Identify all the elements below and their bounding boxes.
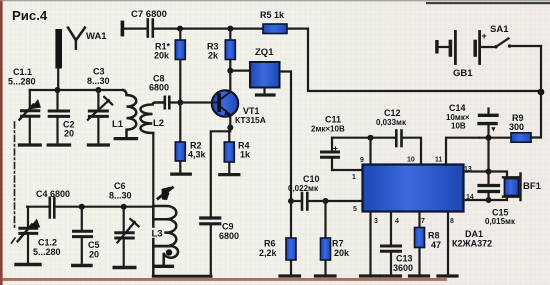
label L2 [152,117,166,127]
node C5 top [79,204,85,210]
ganged tuning dash line [12,122,17,243]
node antenna/C2 junction [55,87,61,93]
svg-text:L1: L1 [112,119,124,130]
ground C13 [382,274,401,277]
svg-text:R6: R6 [264,239,276,249]
ground under C2 [48,143,69,146]
resistor R7 [324,201,326,238]
svg-text:5...280: 5...280 [33,247,61,257]
svg-text:К2ЖА372: К2ЖА372 [452,239,492,249]
node C6 top [121,204,127,210]
svg-text:DA1: DA1 [465,229,483,239]
wire C14 node down to pin13 [487,138,489,172]
ground R8 [410,274,429,277]
node supply right [538,89,545,96]
wire pin9 stub [369,138,371,165]
capacitor C3 trimmer [97,90,99,110]
capacitor C7 [147,20,150,37]
svg-text:7: 7 [421,218,425,225]
svg-text:BF1: BF1 [523,181,542,192]
svg-text:ZQ1: ZQ1 [255,47,274,58]
capacitor C13 on pin4 [390,212,392,245]
coupling arrow [158,188,173,199]
ground R2 [172,173,191,176]
capacitor C5 [81,207,83,230]
resistor R6 [290,201,292,238]
scan edge bottom red line [0,278,447,281]
ground under C6 [114,266,135,269]
svg-text:C13: C13 [396,254,413,264]
ground R6 [280,274,300,277]
svg-text:4: 4 [395,218,399,225]
svg-text:8...30: 8...30 [109,191,132,201]
wire pin8 to ground [447,212,449,275]
svg-text:L3: L3 [152,229,163,240]
ground under L1 [115,137,136,140]
ground pin3 [361,274,380,277]
svg-text:10В: 10В [451,122,466,131]
svg-text:8...30: 8...30 [87,76,110,86]
svg-text:11: 11 [435,157,443,164]
quartz ZQ1 [227,68,233,74]
wire pin14 [464,199,489,201]
svg-text:2мк×10В: 2мк×10В [311,125,345,134]
label L3 [151,228,165,238]
svg-text:4,3k: 4,3k [188,150,207,160]
svg-text:КТ315А: КТ315А [235,115,266,125]
ground R7 [316,274,336,277]
antenna symbol WA1 [68,28,85,49]
svg-text:C1.2: C1.2 [38,238,57,248]
ground under C3 [88,143,108,146]
wire tank1 top rail [30,89,123,91]
resistor R1 [179,29,181,40]
svg-text:+: + [482,31,487,41]
svg-text:20k: 20k [154,51,170,61]
svg-text:20: 20 [89,250,99,260]
scan edge left red line [0,0,3,285]
capacitor C9 [201,216,220,219]
svg-text:C9: C9 [222,222,234,232]
capacitor C7 left terminal [121,21,125,37]
svg-text:3600: 3600 [393,263,413,273]
wire collector [229,71,231,91]
node C3 junction [95,87,101,93]
earphone BF1 [489,172,508,201]
svg-text:6800: 6800 [219,231,239,241]
ground R4 [220,173,239,176]
svg-text:0,022мк: 0,022мк [288,184,319,193]
switch SA1 [494,45,497,48]
wire pin13 [464,170,489,172]
wire pin11 to C14 node [446,138,479,165]
svg-text:L2: L2 [153,118,164,129]
resistor R2 [177,100,183,106]
ground pin8 [438,274,457,277]
svg-text:C10: C10 [303,174,320,184]
svg-text:C11: C11 [325,115,341,125]
ground under C5 [73,264,91,267]
svg-text:Рис.4: Рис.4 [12,8,48,23]
svg-text:C6: C6 [114,181,126,191]
node pin9 [368,135,374,141]
svg-text:C1.1: C1.1 [13,67,32,77]
svg-text:9: 9 [360,157,364,164]
inductor L2 [141,103,164,134]
svg-text:20k: 20k [334,248,350,258]
svg-text:SA1: SA1 [490,24,509,35]
svg-text:3: 3 [374,218,378,225]
wire C7 left [124,28,147,30]
svg-text:C12: C12 [384,108,401,118]
svg-text:WA1: WA1 [86,31,107,42]
inductor L3 [153,206,176,276]
resistor R4 [228,128,230,143]
svg-text:C7 6800: C7 6800 [131,9,167,20]
svg-text:2,2k: 2,2k [259,248,278,258]
resistor R5 [263,24,287,34]
wire emitter [229,116,231,128]
svg-text:GB1: GB1 [453,68,473,79]
svg-text:R5 1k: R5 1k [260,10,285,20]
svg-text:0,033мк: 0,033мк [376,118,407,127]
svg-text:C14: C14 [449,103,466,113]
ground under C1.1 [19,143,40,146]
svg-text:C5: C5 [88,240,100,250]
antenna mast WA1 [55,29,62,69]
svg-text:10: 10 [407,157,415,164]
resistor R9 [511,133,531,142]
wire R5 to supply rail [308,29,541,91]
transistor VT1 [212,90,238,116]
wire tank2 rail [27,206,49,208]
capacitor C1.2 variable [27,207,29,227]
svg-text:2k: 2k [208,51,219,61]
svg-text:47: 47 [431,240,441,250]
battery GB1 [435,40,438,54]
ground under ZQ1 [257,93,275,96]
svg-text:1k: 1k [240,150,251,160]
ground L3 tap [155,265,172,268]
capacitor C1.1 variable [29,90,31,110]
svg-text:C15: C15 [492,208,509,218]
svg-text:8: 8 [450,218,454,225]
node C14 bottom [486,135,492,141]
node R1 top [177,26,183,32]
capacitor C6 trimmer [123,207,125,232]
svg-text:C3: C3 [93,67,105,77]
capacitor C12 [371,137,396,139]
ground under C1.2 [16,263,40,266]
svg-text:R8: R8 [428,231,440,241]
wire C10 node line to pin5 [288,198,294,204]
wire ZQ1 right down [280,72,292,202]
wire top rail [154,28,263,30]
capacitor C11 [332,137,371,139]
scan edge top gray line [0,0,550,1]
resistor R8 on pin7 [418,212,420,228]
svg-text:5: 5 [353,206,357,213]
wire emitter to C9 [211,128,231,217]
svg-text:5...280: 5...280 [8,77,36,87]
IC DA1 [363,165,464,212]
capacitor C10 [301,193,304,210]
wire pin3 to ground [369,212,371,275]
svg-text:20: 20 [64,129,74,139]
wire bottom rail L3-C9 [153,275,211,278]
wire L2 bottom down [152,133,154,219]
svg-text:6800: 6800 [149,83,169,93]
capacitor C15 [487,172,489,185]
svg-text:R7: R7 [332,239,344,249]
inductor L1 [123,90,136,137]
svg-text:0,015мк: 0,015мк [485,217,516,226]
capacitor C2 [56,90,58,110]
capacitor C14 [487,109,489,114]
resistor R3 [229,29,231,40]
node R3 top [227,26,233,32]
capacitor C4 [48,198,51,218]
svg-text:1: 1 [352,174,356,181]
svg-text:+: + [333,143,338,153]
svg-text:300: 300 [509,122,524,132]
svg-text:C4 6800: C4 6800 [36,189,70,199]
capacitor C8 [164,97,167,108]
